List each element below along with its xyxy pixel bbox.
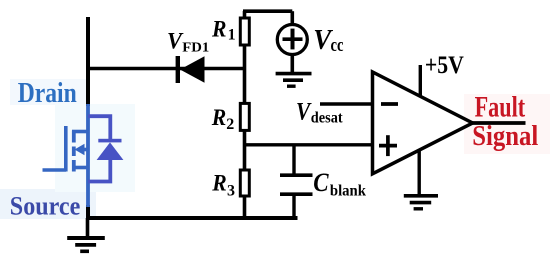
body arrow head [75,144,85,155]
wire: capacitor bottom stub [292,194,295,218]
body diode cathode bar [98,139,121,143]
svg-text:Fault: Fault [475,91,526,124]
wire: Vdesat input to comparator minus [320,102,373,106]
svg-text:C: C [313,168,329,197]
diode VFD1 cathode bar [176,56,180,83]
svg-text:Source: Source [10,191,81,221]
drain contact [72,130,88,134]
gate bar [64,126,68,172]
channel segment bottom [72,160,76,172]
wire: top rail to Vcc [243,9,292,13]
svg-text:desat: desat [311,110,344,127]
label R1 [211,16,236,43]
svg-text:R: R [211,16,226,41]
channel segment top [72,131,76,143]
svg-text:FD1: FD1 [182,39,209,54]
capacitor Cblank [280,175,313,194]
label VFD1 [167,29,210,55]
wire: +5V stub [419,65,422,97]
source Vcc plus sign [283,29,303,50]
wire: comparator ground stub [418,150,421,196]
svg-text:Drain: Drain [18,78,77,109]
op-amp U1 comparator triangle [373,72,473,174]
wire: ground stem bottom left [86,218,90,237]
op-amp minus input sign [381,102,398,106]
resistor R2 [240,103,249,130]
svg-text:Signal: Signal [472,121,538,152]
resistor R3 [240,170,249,196]
wire: Vcc top stub [290,11,294,25]
svg-text:blank: blank [330,182,366,199]
label Vdesat [296,97,343,127]
wire: source vertical black lower part [86,205,90,220]
ground: bottom left [67,238,105,251]
body diode triangle [97,142,124,160]
transistor Q1 MOSFET blue body [43,104,89,207]
body arrow line [80,148,88,152]
ground: below Vcc [276,74,312,87]
background tint patches (jpeg-like halos) [0,79,550,219]
wire: diode branch horizontal from drain to R1/R2 node [88,67,245,71]
wire: gate lead [43,168,67,172]
label R2 [211,105,235,133]
svg-text:R: R [211,105,226,130]
wire: R2/R3 node to comparator plus [245,143,373,146]
label Cblank [313,168,366,199]
label Vcc [313,25,343,56]
wire: Vcc bottom stub [290,55,294,73]
wire: R-chain vertical [243,11,247,218]
body diode branch blue [88,116,110,181]
wire: branch bottom [88,160,110,182]
resistor R1 [240,18,249,45]
label R3 [211,171,235,200]
wire: comparator output [470,121,526,125]
source contact [72,166,88,170]
wire: branch top [88,116,110,140]
svg-text:+5V: +5V [425,52,464,79]
diode VFD1 triangle [180,56,205,82]
wire: blue vertical drain-source lead [86,104,90,207]
wire: capacitor top stub [292,145,295,175]
svg-text:R: R [211,171,226,196]
channel segment middle [72,147,76,157]
ground: below comparator [404,196,438,209]
svg-text:1: 1 [228,27,236,44]
svg-text:2: 2 [226,116,234,133]
svg-text:V: V [296,97,312,126]
source Vcc circle [277,25,307,55]
op-amp plus input sign [379,135,397,156]
svg-text:cc: cc [331,35,344,56]
wire: drain vertical (black upper part) [86,17,90,106]
svg-text:3: 3 [227,182,235,199]
wire: bottom rail [86,216,298,220]
